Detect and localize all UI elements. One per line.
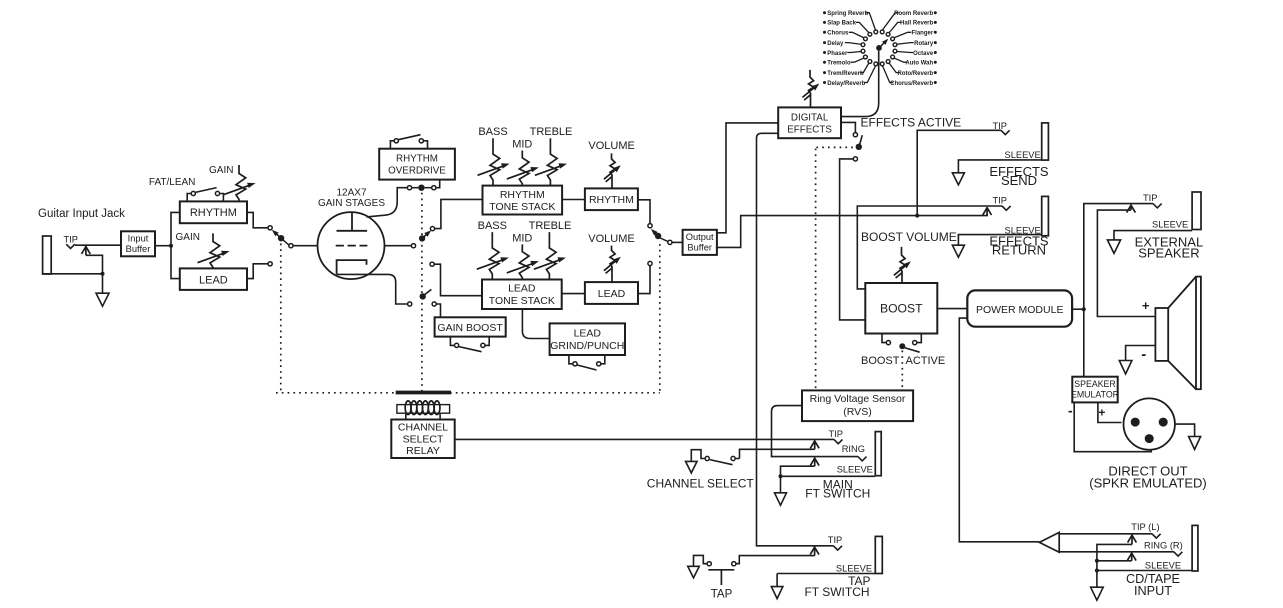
wire effects send tip bbox=[917, 130, 1001, 215]
rotary selector center pole bbox=[876, 45, 882, 51]
svg-text:BASS: BASS bbox=[478, 126, 507, 138]
svg-text:TONE STACK: TONE STACK bbox=[489, 295, 555, 307]
wire lead volume to output selector bbox=[638, 266, 650, 294]
wire lead tone stack to grind/punch bbox=[522, 309, 549, 339]
svg-text:+: + bbox=[1098, 406, 1105, 420]
tube grid (dashed) bbox=[336, 245, 368, 247]
block LEAD volume bbox=[585, 282, 638, 304]
svg-text:SEND: SEND bbox=[1001, 173, 1037, 188]
svg-text:TIP: TIP bbox=[1143, 193, 1157, 203]
tip contact chevron (guitar jack) bbox=[66, 244, 75, 248]
block Ring Voltage Sensor bbox=[802, 390, 913, 421]
pot TREBLE lead bbox=[546, 232, 556, 279]
pot GAIN rhythm bbox=[236, 165, 246, 201]
ext speaker tip chevron bbox=[1153, 204, 1162, 208]
wire tap sleeve bbox=[777, 573, 875, 575]
svg-text:TIP: TIP bbox=[829, 429, 843, 439]
svg-text:RING: RING bbox=[842, 444, 865, 454]
svg-text:BASS: BASS bbox=[478, 220, 507, 232]
ground (main sleeve) bbox=[775, 493, 787, 506]
svg-text:-: - bbox=[1068, 403, 1073, 419]
svg-text:Auto Wah: Auto Wah bbox=[905, 61, 933, 67]
svg-text:Buffer: Buffer bbox=[687, 243, 712, 253]
pot BASS lead bbox=[489, 232, 499, 279]
svg-text:TREBLE: TREBLE bbox=[530, 126, 573, 138]
block DIGITAL EFFECTS bbox=[778, 107, 841, 138]
svg-text:(SPKR EMULATED): (SPKR EMULATED) bbox=[1089, 475, 1207, 490]
svg-text:EFFECTS: EFFECTS bbox=[787, 125, 832, 136]
wire cd ring (R) bbox=[1059, 551, 1174, 553]
rotary position Rotary bbox=[893, 43, 897, 47]
return normal-contact arrow from dry line bbox=[917, 214, 987, 216]
selector boost common contact bbox=[408, 302, 412, 306]
wire effects active to boost bbox=[840, 159, 866, 320]
svg-text:RHYTHM: RHYTHM bbox=[589, 194, 634, 206]
svg-text:RHYTHM: RHYTHM bbox=[500, 189, 545, 201]
relay armature bar bbox=[396, 391, 451, 395]
svg-text:GRIND/PUNCH: GRIND/PUNCH bbox=[550, 340, 624, 352]
wire output buffer to digital effects bbox=[717, 123, 778, 233]
pot MID rhythm bbox=[519, 151, 529, 186]
svg-text:OVERDRIVE: OVERDRIVE bbox=[388, 166, 446, 177]
jack EXTERNAL SPEAKER bbox=[1192, 192, 1201, 230]
svg-text:Hall Reverb: Hall Reverb bbox=[900, 21, 933, 27]
svg-text:+: + bbox=[1142, 298, 1150, 313]
wire effects return sleeve bbox=[958, 235, 1041, 246]
rotary position Room Reverb bbox=[880, 30, 884, 34]
block LEAD preamp bbox=[180, 268, 247, 290]
wire jack sleeve to junction bbox=[43, 273, 103, 275]
selector contact to rhythm tone stack bbox=[430, 227, 434, 231]
svg-text:LEAD: LEAD bbox=[598, 288, 626, 300]
svg-text:TONE STACK: TONE STACK bbox=[489, 201, 555, 213]
rotary position Chorus/Reverb bbox=[880, 62, 884, 66]
svg-text:SLEEVE: SLEEVE bbox=[1152, 220, 1188, 230]
rotary position Trem/Reverb bbox=[868, 60, 872, 64]
selector overdrive in/out contacts bbox=[407, 186, 411, 190]
svg-text:SLEEVE: SLEEVE bbox=[1145, 560, 1181, 570]
switch EFFECTS ACTIVE bbox=[841, 122, 855, 132]
svg-text:CHANNEL: CHANNEL bbox=[398, 422, 448, 434]
selector pole (tube output) bbox=[419, 235, 425, 241]
svg-text:EMULATOR: EMULATOR bbox=[1071, 389, 1119, 399]
svg-text:RETURN: RETURN bbox=[992, 243, 1046, 258]
wire boost to power module bbox=[937, 308, 967, 310]
junction cd node 2 bbox=[1095, 569, 1099, 573]
ground (guitar jack) bbox=[96, 293, 109, 306]
svg-text:MID: MID bbox=[512, 139, 532, 151]
svg-text:VOLUME: VOLUME bbox=[588, 140, 634, 152]
cd tip normal arrow bbox=[1131, 537, 1133, 545]
pot VOLUME lead bbox=[610, 246, 615, 283]
svg-text:GAIN: GAIN bbox=[209, 165, 233, 176]
selector pole (output) bbox=[655, 233, 661, 239]
svg-text:ACTIVE: ACTIVE bbox=[906, 355, 946, 367]
svg-text:RING (R): RING (R) bbox=[1144, 540, 1183, 550]
wire LEAD out to selector bbox=[247, 264, 268, 279]
wire cd ring normal to sleeve bus bbox=[1097, 560, 1132, 562]
dotted RVS link to boost active bbox=[901, 351, 903, 390]
wire rotary selector to digital effects bbox=[841, 51, 879, 117]
svg-text:GAIN: GAIN bbox=[176, 232, 200, 243]
rotary position Slap Back bbox=[868, 32, 872, 36]
switch BOOST ACTIVE bbox=[882, 334, 886, 343]
switch below GAIN BOOST bbox=[450, 337, 454, 346]
pot digital effects level bbox=[809, 70, 814, 108]
return tip chevron bbox=[1002, 206, 1011, 210]
selector pole (channel input) bbox=[278, 235, 284, 241]
svg-text:TIP (L): TIP (L) bbox=[1131, 522, 1159, 532]
junction cd node 1 bbox=[1095, 559, 1099, 563]
rotary position Spring Reverb bbox=[874, 30, 878, 34]
wire plate to overdrive selector bbox=[367, 188, 408, 217]
wire power module cd/tape input bbox=[959, 318, 1039, 542]
dotted relay link (overdrive selector) bbox=[421, 193, 423, 393]
svg-text:Flanger: Flanger bbox=[912, 31, 934, 37]
svg-text:VOLUME: VOLUME bbox=[588, 233, 634, 245]
ground (channel select) bbox=[686, 461, 698, 473]
tap tip normal arrow bbox=[814, 549, 816, 556]
ground (cd sleeve) bbox=[1091, 587, 1104, 600]
block SPEAKER EMULATOR bbox=[1072, 377, 1117, 403]
svg-text:FT SWITCH: FT SWITCH bbox=[804, 585, 869, 599]
svg-text:BOOST VOLUME: BOOST VOLUME bbox=[861, 230, 957, 244]
svg-text:Rotary: Rotary bbox=[914, 41, 934, 47]
ext speaker tip normal contact to internal speaker bbox=[1130, 207, 1132, 210]
rotary position Flanger bbox=[891, 37, 895, 41]
block LEAD TONE STACK bbox=[482, 280, 562, 310]
pot MID lead bbox=[519, 244, 529, 279]
rotary position Delay bbox=[861, 43, 865, 47]
block LEAD GRIND/PUNCH bbox=[550, 323, 625, 355]
wire RHYTHM out to selector bbox=[247, 212, 268, 227]
cd ring normal arrow bbox=[1131, 555, 1133, 561]
tube 12AX7 envelope bbox=[318, 212, 385, 279]
svg-text:Slap Back: Slap Back bbox=[827, 21, 856, 27]
pot TREBLE rhythm bbox=[547, 138, 557, 185]
svg-text:Chorus: Chorus bbox=[827, 31, 849, 37]
jack EFFECTS SEND bbox=[1042, 123, 1049, 160]
jack CD/TAPE INPUT bbox=[1192, 525, 1198, 571]
ground (tap sleeve) bbox=[771, 587, 783, 599]
dotted relay bus bbox=[276, 392, 660, 394]
wire Input Buffer output bbox=[155, 245, 171, 247]
switch below LEAD GRIND/PUNCH bbox=[569, 355, 573, 364]
svg-text:POWER MODULE: POWER MODULE bbox=[976, 304, 1064, 316]
wire power module to speaker emulator bbox=[1083, 309, 1085, 377]
svg-text:Delay/Reverb: Delay/Reverb bbox=[827, 81, 865, 87]
jack EFFECTS RETURN bbox=[1042, 196, 1049, 235]
selector pole (gain boost) bbox=[420, 293, 426, 299]
wire cathode to boost selector bbox=[337, 274, 408, 304]
wire overdrive selector to box bbox=[436, 180, 440, 188]
svg-text:(RVS): (RVS) bbox=[843, 406, 871, 418]
rotary position Hall Reverb bbox=[886, 32, 890, 36]
wire ext speaker sleeve bbox=[1114, 231, 1192, 240]
svg-text:Phaser: Phaser bbox=[827, 51, 848, 57]
ground (ext speaker sleeve) bbox=[1107, 240, 1120, 254]
relay coil bbox=[397, 405, 450, 414]
wire output buffer dry to send/return bbox=[717, 216, 917, 248]
svg-text:Delay: Delay bbox=[827, 41, 844, 47]
tip normal-contact arrow (guitar jack) bbox=[85, 248, 87, 255]
svg-text:RHYTHM: RHYTHM bbox=[190, 207, 237, 219]
wire main sleeve ground bbox=[780, 476, 782, 493]
wire to external speaker tip bbox=[1084, 204, 1153, 310]
block RHYTHM preamp bbox=[180, 201, 247, 223]
svg-text:SELECT: SELECT bbox=[403, 433, 444, 445]
wire digital effects to tap tip (long) bbox=[757, 133, 834, 546]
rotary position Octave bbox=[893, 49, 897, 53]
svg-text:TIP: TIP bbox=[993, 195, 1007, 205]
jack TAP FT SWITCH bbox=[875, 536, 882, 573]
wire main sleeve bus bbox=[781, 475, 876, 477]
block RHYTHM TONE STACK bbox=[483, 186, 563, 215]
ground (send sleeve) bbox=[952, 173, 964, 185]
svg-text:Ring Voltage Sensor: Ring Voltage Sensor bbox=[810, 393, 906, 405]
svg-text:Tremolo: Tremolo bbox=[827, 61, 851, 67]
pot BASS rhythm bbox=[490, 138, 500, 185]
svg-text:-: - bbox=[1141, 346, 1146, 363]
rotary position Chorus bbox=[864, 37, 868, 41]
cd ring chevron bbox=[1174, 552, 1183, 556]
svg-text:BOOST: BOOST bbox=[880, 301, 923, 315]
dotted relay link (input selector) bbox=[280, 244, 282, 393]
wire rhythm tone stack to volume bbox=[562, 199, 585, 201]
junction channel split node bbox=[169, 244, 173, 248]
main ring normal arrow bbox=[814, 460, 816, 467]
svg-text:GAIN STAGES: GAIN STAGES bbox=[318, 198, 385, 209]
pot BOOST VOLUME bbox=[900, 247, 905, 283]
svg-text:RHYTHM: RHYTHM bbox=[396, 154, 438, 165]
svg-text:FAT/LEAN: FAT/LEAN bbox=[149, 177, 196, 188]
svg-text:Chorus/Reverb: Chorus/Reverb bbox=[890, 81, 933, 87]
wire XLR to ground bbox=[1175, 424, 1195, 436]
connector XLR direct out bbox=[1124, 398, 1175, 449]
main tip chevron bbox=[834, 439, 843, 443]
rotary position Auto Wah bbox=[891, 55, 895, 59]
buffer CD/TAPE (triangle) bbox=[1039, 532, 1059, 552]
switch RHYTHM OVERDRIVE bypass bbox=[390, 141, 394, 149]
rotary position Tremolo bbox=[864, 55, 868, 59]
rotary position Delay/Reverb bbox=[874, 62, 878, 66]
svg-text:MID: MID bbox=[512, 233, 532, 245]
wire channel select to main tip bbox=[740, 449, 815, 458]
svg-text:RELAY: RELAY bbox=[406, 445, 440, 457]
wire effects send sleeve bbox=[958, 160, 1041, 173]
svg-text:TIP: TIP bbox=[993, 121, 1007, 131]
wire effects return tip bbox=[857, 206, 1002, 289]
svg-text:Roto/Reverb: Roto/Reverb bbox=[898, 71, 934, 77]
svg-text:LEAD: LEAD bbox=[574, 327, 602, 339]
dotted relay link (output selector) bbox=[659, 244, 661, 393]
svg-text:Octave: Octave bbox=[913, 51, 934, 57]
wire lead tone stack to volume bbox=[562, 293, 585, 295]
tube cathode bbox=[337, 260, 367, 274]
svg-text:FT SWITCH: FT SWITCH bbox=[805, 487, 870, 501]
svg-text:SPEAKER: SPEAKER bbox=[1138, 246, 1199, 261]
selector common contact (to tube) bbox=[289, 244, 293, 248]
junction sleeve node bbox=[101, 272, 105, 276]
svg-text:Trem/Reverb: Trem/Reverb bbox=[827, 71, 864, 77]
tube plate bbox=[351, 212, 353, 231]
wire cd tip (L) bbox=[1059, 533, 1152, 535]
svg-text:TAP: TAP bbox=[711, 589, 733, 601]
block RHYTHM OVERDRIVE bbox=[379, 149, 455, 180]
wire power module output bbox=[1072, 308, 1084, 310]
block Input Buffer bbox=[121, 231, 155, 256]
svg-text:TREBLE: TREBLE bbox=[529, 220, 572, 232]
selector contact to lead tone stack bbox=[430, 262, 434, 266]
rotary position Roto/Reverb bbox=[886, 60, 890, 64]
svg-text:Guitar Input Jack: Guitar Input Jack bbox=[38, 208, 125, 220]
svg-text:SLEEVE: SLEEVE bbox=[1005, 150, 1041, 160]
block GAIN BOOST bbox=[435, 317, 506, 336]
svg-text:SLEEVE: SLEEVE bbox=[836, 563, 872, 573]
svg-text:CHANNEL SELECT: CHANNEL SELECT bbox=[647, 476, 755, 490]
block CHANNEL SELECT RELAY bbox=[391, 420, 454, 459]
junction dry/send node bbox=[915, 214, 919, 218]
guitar input jack connector bbox=[43, 236, 52, 274]
junction speaker node bbox=[1082, 307, 1086, 311]
svg-text:Spring Reverb: Spring Reverb bbox=[827, 11, 868, 17]
svg-text:SLEEVE: SLEEVE bbox=[837, 464, 873, 474]
rotary position Phaser bbox=[861, 49, 865, 53]
svg-text:EFFECTS ACTIVE: EFFECTS ACTIVE bbox=[861, 116, 962, 130]
selector common to output buffer bbox=[668, 240, 672, 244]
wire junction to ground bbox=[102, 274, 104, 293]
ground (direct out) bbox=[1189, 437, 1201, 450]
wire TIP to Input Buffer bbox=[75, 244, 121, 246]
wire cd sleeve bbox=[1097, 570, 1192, 572]
wire arrow to sleeve junction bbox=[86, 255, 103, 273]
pot VOLUME rhythm bbox=[610, 153, 615, 188]
pot GAIN lead bbox=[210, 233, 220, 268]
wire rhythm volume to output selector bbox=[638, 200, 650, 224]
selector contact to gain boost bbox=[432, 302, 436, 306]
send tip chevron bbox=[1001, 130, 1010, 134]
tap tip chevron bbox=[833, 546, 842, 550]
svg-text:LEAD: LEAD bbox=[199, 274, 228, 286]
dotted RVS link to effects active bbox=[816, 146, 854, 148]
svg-text:LEAD: LEAD bbox=[508, 283, 536, 295]
cd tip chevron bbox=[1152, 534, 1161, 538]
block RHYTHM volume bbox=[585, 188, 638, 210]
wire main sleeve bbox=[781, 466, 815, 476]
wire RVS to main ring bbox=[772, 406, 803, 457]
svg-text:Room Reverb: Room Reverb bbox=[894, 11, 933, 17]
svg-text:TIP: TIP bbox=[64, 235, 78, 245]
svg-text:DIGITAL: DIGITAL bbox=[791, 112, 829, 123]
svg-text:SPEAKER: SPEAKER bbox=[1074, 379, 1116, 389]
selector switch channel-input contacts bbox=[268, 226, 272, 230]
ground (speaker minus) bbox=[1119, 361, 1132, 375]
ground (return sleeve) bbox=[952, 245, 964, 257]
svg-text:GAIN BOOST: GAIN BOOST bbox=[437, 322, 503, 334]
speaker driver bbox=[1155, 308, 1168, 361]
wire relay to main footswitch tip bbox=[455, 438, 834, 440]
junction main sleeve bbox=[779, 474, 783, 478]
wire selector to 12AX7 grid bbox=[293, 245, 318, 247]
wire split to RHYTHM and LEAD bbox=[171, 212, 180, 278]
svg-text:BOOST: BOOST bbox=[861, 355, 900, 367]
main ring chevron bbox=[858, 457, 867, 461]
jack MAIN FT SWITCH bbox=[875, 432, 881, 476]
speaker horn bbox=[1168, 277, 1196, 308]
svg-text:12AX7: 12AX7 bbox=[336, 187, 366, 198]
switch CHANNEL SELECT bbox=[705, 456, 709, 460]
ground (tap switch) bbox=[688, 566, 700, 578]
block Output Buffer bbox=[683, 230, 717, 255]
svg-text:Buffer: Buffer bbox=[126, 244, 151, 254]
main tip normal arrow bbox=[814, 442, 816, 449]
svg-text:INPUT: INPUT bbox=[1134, 584, 1172, 598]
block POWER MODULE bbox=[967, 290, 1072, 326]
wire speaker minus to ground bbox=[1126, 346, 1156, 361]
switch TAP (momentary) bbox=[707, 562, 711, 566]
wire tube output bbox=[385, 245, 412, 247]
svg-text:Input: Input bbox=[128, 234, 149, 244]
wire emulator + to XLR bbox=[1098, 402, 1122, 422]
switch FAT/LEAN bbox=[187, 194, 191, 202]
svg-text:Output: Output bbox=[686, 232, 714, 242]
block BOOST bbox=[865, 283, 937, 334]
svg-text:TIP: TIP bbox=[828, 535, 842, 545]
wire emulator - to XLR shell bbox=[1074, 402, 1151, 451]
